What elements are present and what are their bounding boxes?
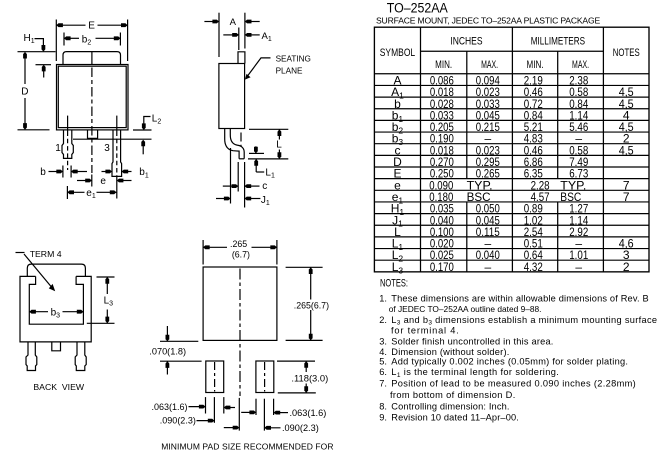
pad layout: dimension .070 upper extension line: [160, 340, 198, 342]
svg-text:SURFACE MOUNT, JEDEC TO–252AA: SURFACE MOUNT, JEDEC TO–252AA PLASTIC PA…: [376, 15, 600, 25]
back view: dimension b3 line and arrows: [29, 311, 48, 313]
svg-text:TERM 4: TERM 4: [30, 249, 62, 259]
svg-text:0.170: 0.170: [430, 260, 454, 274]
svg-text:9.: 9.: [379, 412, 387, 422]
svg-text:INCHES: INCHES: [450, 35, 482, 47]
svg-text:These dimensions are within al: These dimensions are within allowable di…: [391, 293, 649, 303]
pad layout: right small pad dashed centerline: [264, 362, 266, 392]
front view: dimension b2 extension ticks: [63, 33, 65, 46]
pad layout: big pad dashed centerline: [239, 269, 241, 397]
front view: body outer rectangle: [57, 65, 129, 130]
svg-text:Dimension (without solder).: Dimension (without solder).: [391, 347, 509, 357]
svg-text:MIN.: MIN.: [435, 59, 452, 71]
table: column lines: [420, 27, 422, 272]
pad layout: extension tick T3: [223, 397, 225, 413]
svg-text:A1: A1: [262, 31, 272, 43]
svg-text:NOTES:: NOTES:: [380, 278, 408, 290]
svg-text:L: L: [276, 140, 282, 151]
svg-text:Controlling dimension: Inch.: Controlling dimension: Inch.: [391, 401, 509, 411]
svg-text:.070(1.8): .070(1.8): [149, 347, 186, 357]
svg-text:5.: 5.: [379, 357, 387, 367]
back view: exposed pad cavity outline: [29, 276, 83, 324]
back view: tab outline: [27, 264, 85, 276]
side view: lead extension tick J1 left: [230, 148, 232, 204]
svg-text:MAX.: MAX.: [481, 59, 498, 71]
svg-text:L2: L2: [152, 114, 162, 126]
front view: tab top extension line (left): [18, 51, 56, 53]
svg-text:Position of lead to be measure: Position of lead to be measured 0.090 in…: [391, 379, 636, 389]
side view: lead foot bottom edge: [239, 158, 244, 160]
front view: dimension b1 arrows: [102, 171, 113, 173]
front view: dimension E extension lines: [55, 20, 57, 62]
front view: pin 3 dashed centerline: [116, 132, 118, 177]
front view: body center dashed line: [91, 68, 93, 174]
front view: stub bottom crossing line: [73, 138, 124, 140]
svg-text:H1: H1: [24, 33, 35, 45]
svg-text:TO–252AA: TO–252AA: [387, 0, 448, 15]
svg-text:L3: L3: [104, 295, 114, 307]
svg-text:2.: 2.: [379, 315, 387, 325]
svg-text:J1: J1: [261, 195, 270, 207]
svg-text:–: –: [484, 260, 491, 274]
svg-text:6.: 6.: [379, 367, 387, 377]
pad layout: left small pad: [206, 361, 224, 393]
back view: TERM 4 leader arrow: [24, 254, 53, 288]
table: row lines: [374, 84, 649, 86]
pad layout: dimension .118 line and arrows: [305, 361, 307, 372]
front view: body inner rectangle: [58, 66, 126, 127]
svg-text:A: A: [230, 17, 237, 28]
svg-text:7.: 7.: [379, 379, 387, 389]
svg-text:.090(2.3): .090(2.3): [282, 423, 319, 433]
svg-text:.265(6.7): .265(6.7): [294, 300, 329, 310]
front view: dimension H1 leader and upper arrow: [35, 39, 44, 46]
svg-text:BACK VIEW: BACK VIEW: [33, 382, 84, 392]
svg-text:(6.7): (6.7): [232, 249, 250, 259]
pad layout: vertical .265 upper extension line: [286, 266, 323, 268]
svg-text:b2: b2: [82, 34, 92, 46]
svg-text:e: e: [100, 176, 106, 187]
front view: center extension tick for e: [91, 175, 93, 187]
side view: seating plane leader arrow: [248, 58, 271, 76]
front view: L2 upper reference extension line: [133, 129, 152, 131]
pad layout: dimension .118 upper extension line: [277, 360, 315, 362]
side view: mounting tab: [238, 52, 245, 64]
pad layout: right .090 arrows: [224, 427, 240, 429]
pad layout: extension tick T1: [205, 397, 207, 413]
side view: dimension A extension ticks: [218, 13, 220, 57]
svg-text:SEATING: SEATING: [276, 54, 311, 63]
front view: center stub pin 2: [88, 130, 98, 139]
side view: dimension L1 upper arrow and tick: [255, 146, 257, 153]
svg-text:for terminal 4.: for terminal 4.: [391, 326, 460, 336]
svg-text:b3: b3: [51, 307, 61, 319]
front view: dimension b ticks: [62, 166, 64, 178]
side view: seating plane extension line: [248, 158, 288, 160]
pad layout: dimension .070 lower extension line: [160, 360, 202, 362]
front view: dimension E line and arrows: [56, 24, 85, 26]
front view: body bottom extension line (left): [18, 129, 50, 131]
pad layout: dimension .265 line and arrows: [203, 246, 227, 248]
svg-text:4.: 4.: [379, 347, 387, 357]
pad layout: left .090 arrow: [197, 420, 215, 422]
pad layout: dimension .118 lower extension line: [278, 392, 316, 394]
svg-text:.265: .265: [230, 239, 247, 249]
svg-text:3: 3: [104, 143, 110, 154]
table: outer border: [374, 27, 649, 272]
pad layout: extension tick T6 (right pad center): [263, 399, 265, 431]
svg-text:4.32: 4.32: [524, 260, 543, 274]
pad layout: extension tick T5 (right pad left): [255, 399, 257, 415]
front view: tab center line: [91, 52, 93, 65]
svg-text:e1: e1: [86, 188, 96, 200]
side view: lead extension tick c left: [237, 162, 239, 192]
svg-text:8.: 8.: [379, 401, 387, 411]
pad layout: left small pad dashed centerline: [214, 362, 216, 392]
front view: L2 lower reference extension line: [124, 138, 152, 140]
side view: lead outer surface: [225, 129, 239, 159]
svg-text:MILLIMETERS: MILLIMETERS: [531, 35, 585, 47]
svg-text:2: 2: [623, 260, 630, 274]
svg-text:.063(1.6): .063(1.6): [152, 402, 188, 412]
front view: dimension e1 tick (pin 1 center): [66, 186, 68, 199]
pad layout: right .063 arrows: [241, 411, 256, 413]
svg-text:NOTES: NOTES: [613, 47, 640, 59]
side view: dimension A1 extension tick: [238, 28, 240, 51]
pad layout: center extension tick: [238, 398, 240, 431]
svg-text:1.: 1.: [379, 293, 387, 303]
side view: dimension L line and arrows: [278, 129, 280, 139]
svg-text:MIN.: MIN.: [527, 59, 544, 71]
front view: dimension e1 line and arrows: [67, 191, 84, 193]
front view: pin 3 extension tick below: [116, 176, 118, 198]
side view: lead inner surface: [230, 129, 244, 159]
pad layout: dimension .265 ticks: [202, 240, 204, 265]
front view: dimension e arrows: [77, 180, 92, 182]
pad layout: vertical .265 lower extension line: [286, 339, 323, 341]
side view: dimension A arrows: [204, 21, 219, 23]
back view: right pin: [75, 342, 86, 371]
pad layout: vertical .265 dimension line and arrows: [310, 267, 312, 299]
side view: lead extension tick right: [244, 162, 246, 208]
front view: pin 1 hidden centerline (solid in body): [67, 116, 69, 132]
svg-text:E: E: [88, 21, 95, 32]
back view: dimension L3 line and arrows: [106, 277, 108, 294]
side view: dimension c arrows: [223, 185, 238, 187]
front view: pin 1 dashed centerline: [67, 132, 69, 171]
side view: dimension J1 arrows: [216, 198, 231, 200]
svg-text:MINIMUM PAD SIZE RECOMMENDED F: MINIMUM PAD SIZE RECOMMENDED FOR: [161, 442, 333, 451]
back view: left pin: [26, 342, 37, 371]
front view: pin 3 hidden centerline (solid in body): [116, 116, 118, 132]
back view: center stub: [52, 342, 61, 351]
front view: dimension D line and arrows: [24, 55, 26, 84]
back view: TERM 4 leader dash: [16, 252, 25, 254]
svg-text:1: 1: [55, 143, 61, 154]
pad layout: extension tick T7 (right pad right): [273, 399, 275, 415]
svg-text:L1 is the terminal length for: L1 is the terminal length for soldering.: [391, 367, 559, 379]
side view: lead dashed centerline: [240, 133, 242, 147]
front view: package tab: [63, 52, 121, 65]
side view: dimension A1 arrows: [223, 34, 239, 36]
pad layout: right small pad: [256, 361, 274, 393]
front view: pin 3 outline: [112, 130, 122, 177]
front view: dimension b2 line and arrows: [64, 37, 79, 39]
svg-text:4,5: 4,5: [619, 143, 634, 157]
svg-text:Add typically 0.002 inches (0.: Add typically 0.002 inches (0.05mm) for …: [391, 357, 628, 367]
svg-text:.090(2.3): .090(2.3): [160, 416, 196, 426]
pad layout: left .063 arrows: [189, 406, 206, 408]
svg-text:b: b: [40, 167, 46, 178]
svg-text:Revision 10 dated 11–Apr–00.: Revision 10 dated 11–Apr–00.: [391, 412, 519, 422]
pad layout: big pad rectangle: [203, 267, 277, 340]
svg-text:.118(3.0): .118(3.0): [291, 372, 328, 383]
pad layout: dimension .070 arrows: [166, 326, 168, 341]
svg-text:of JEDEC TO–252AA outline date: of JEDEC TO–252AA outline dated 9–88.: [389, 304, 542, 314]
side view: body rectangle: [219, 64, 245, 129]
svg-text:–: –: [575, 260, 582, 274]
svg-text:b1: b1: [139, 167, 149, 179]
svg-text:c: c: [262, 181, 267, 192]
front view: dimension H1 lower arrow and tick: [36, 64, 52, 66]
svg-text:SYMBOL: SYMBOL: [380, 47, 415, 59]
back view: dimension L3 upper tick: [97, 276, 115, 278]
side view: dimension L1 lower arrow and bracket: [255, 159, 257, 172]
svg-text:MAX.: MAX.: [572, 59, 589, 71]
back view: body outline: [20, 276, 91, 342]
front view: L2 lower arrow: [142, 142, 144, 154]
table: header row divider: [421, 50, 604, 52]
back view: dimension L3 lower tick: [87, 322, 115, 324]
front view: dimension b arrows: [49, 171, 63, 173]
svg-text:PLANE: PLANE: [276, 67, 303, 76]
pad layout: extension tick T2 (left pad center): [213, 397, 215, 423]
table: header bottom line: [374, 73, 649, 75]
svg-text:L1: L1: [265, 167, 275, 179]
side view: dimension L upper extension line: [249, 128, 288, 130]
svg-text:.063(1.6): .063(1.6): [290, 408, 327, 418]
svg-text:from bottom of dimension D.: from bottom of dimension D.: [390, 390, 516, 400]
front view: pin 1 outline: [62, 130, 73, 159]
svg-text:7: 7: [623, 190, 630, 204]
svg-text:3.: 3.: [379, 336, 387, 346]
svg-text:D: D: [21, 87, 28, 98]
svg-text:Solder finish uncontrolled in: Solder finish uncontrolled in this area.: [391, 336, 553, 346]
